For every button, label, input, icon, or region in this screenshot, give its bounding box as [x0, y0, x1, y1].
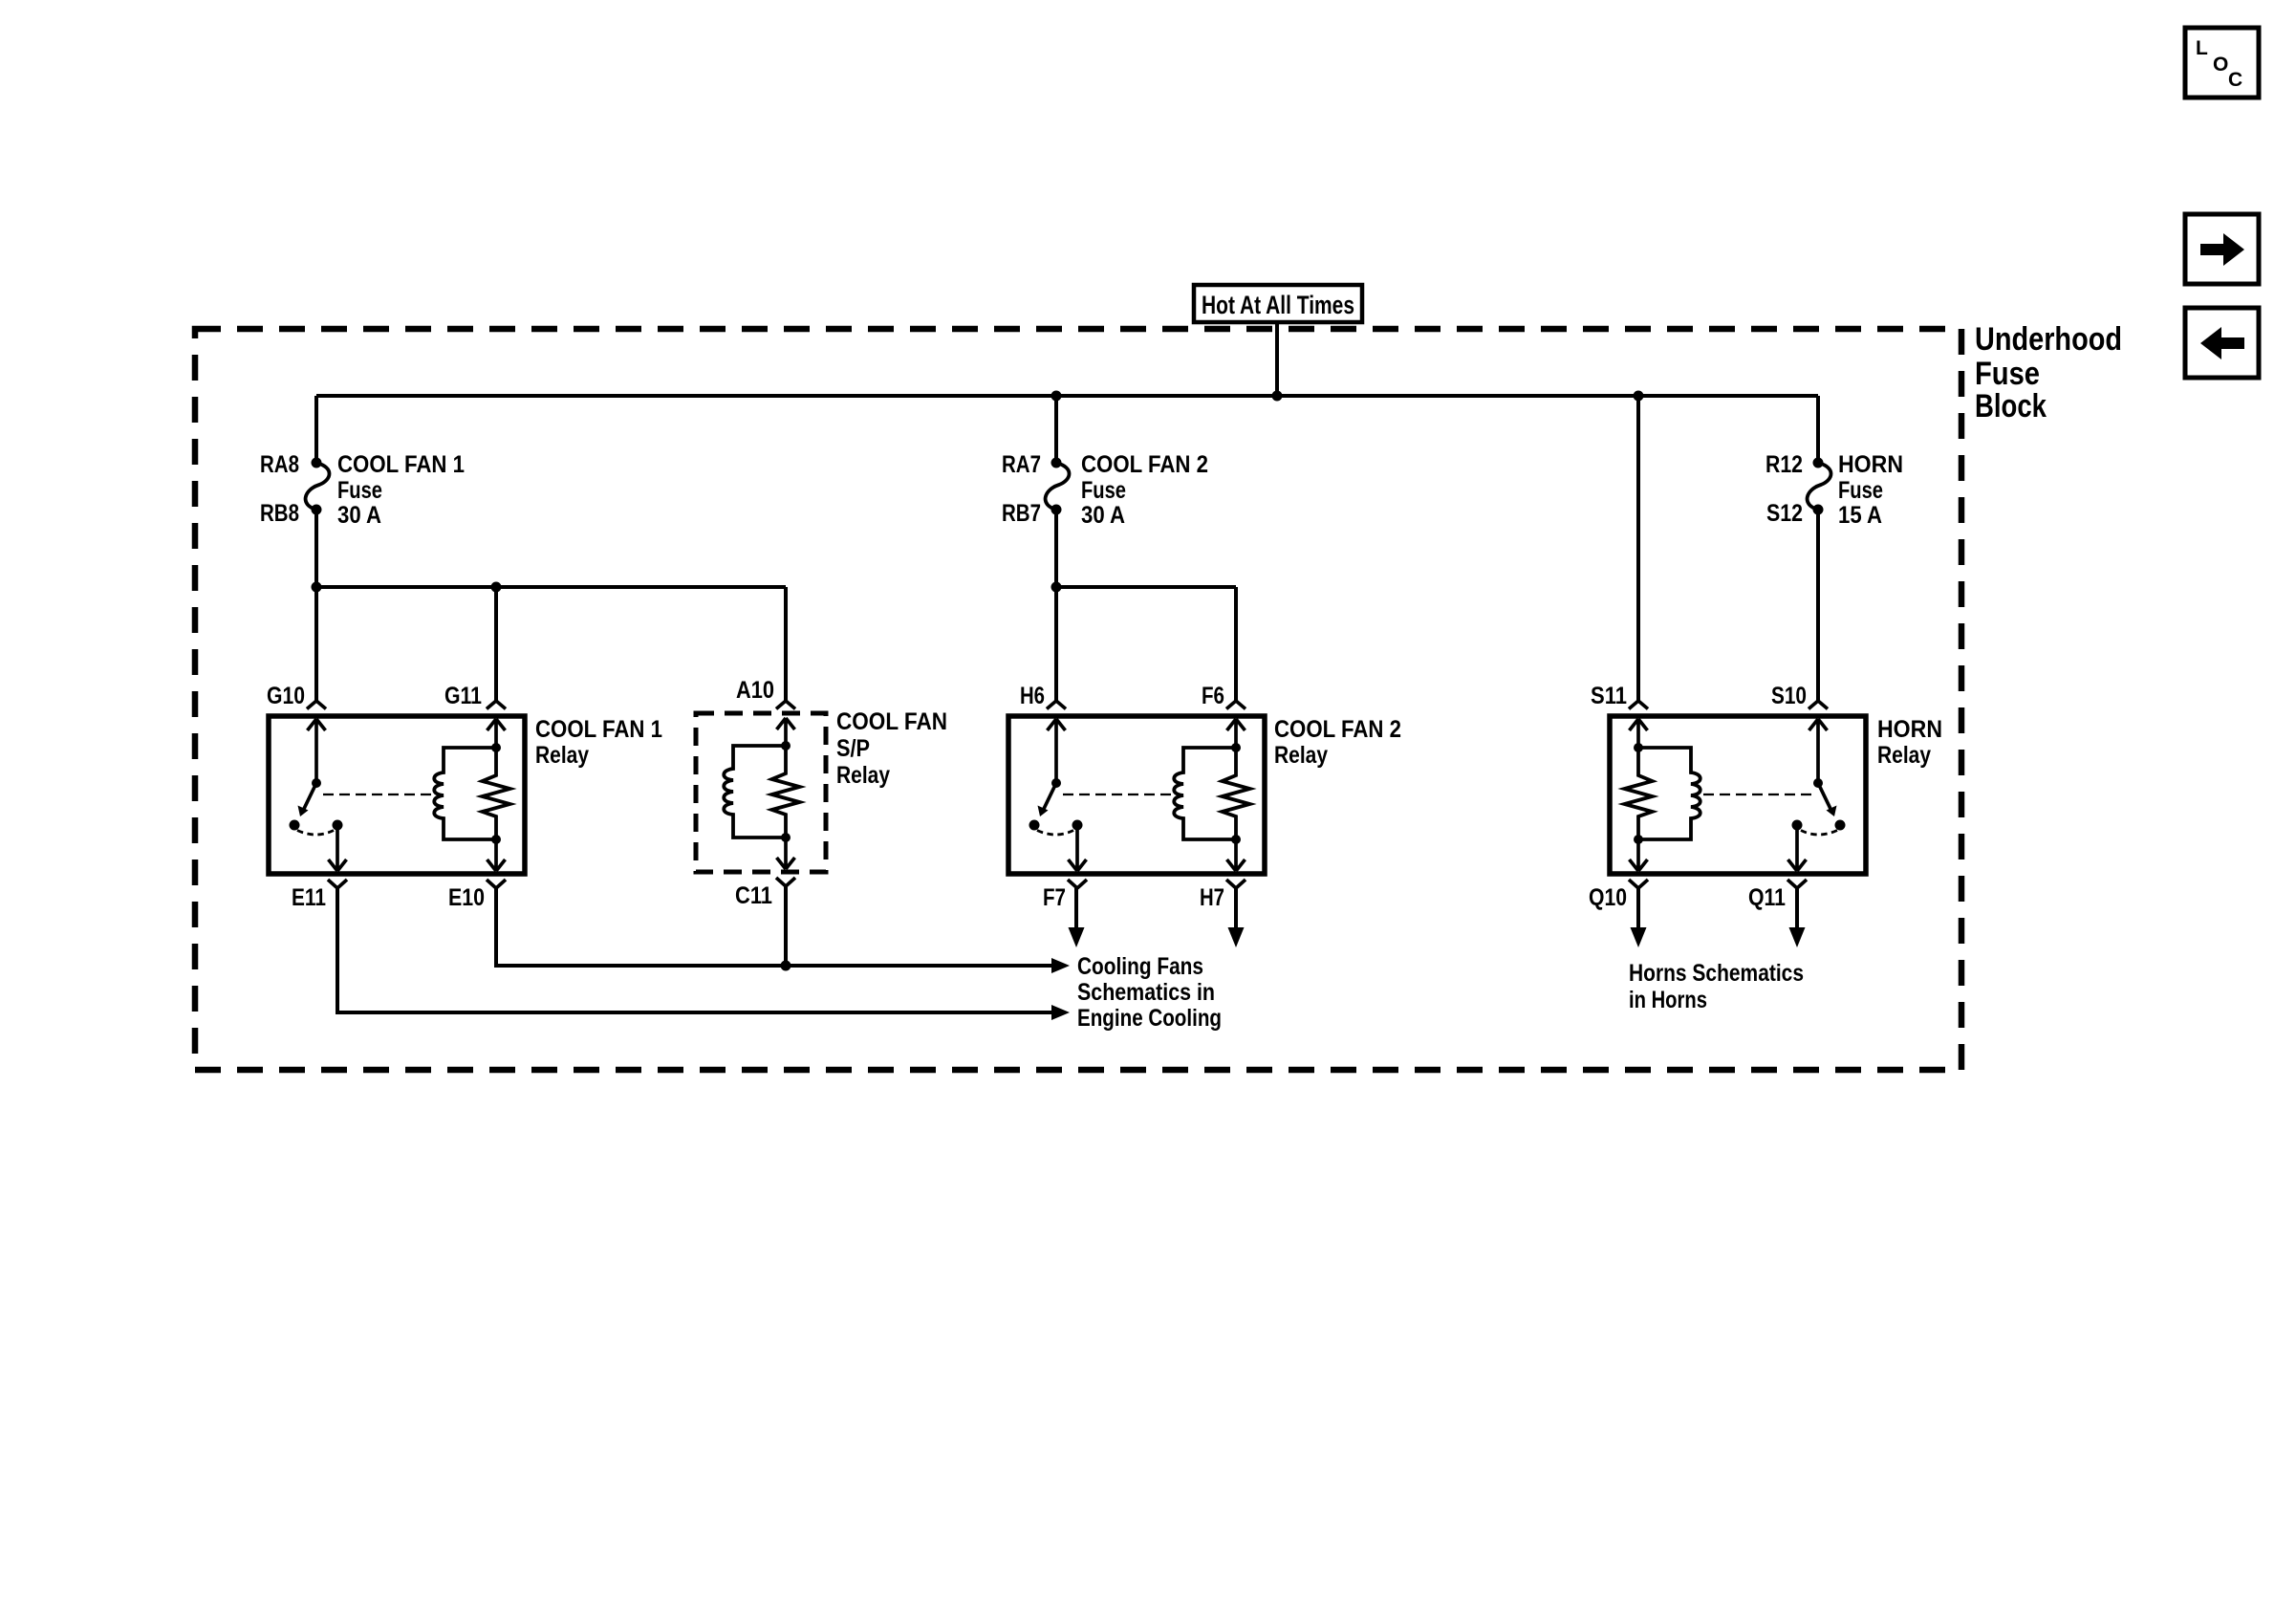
node: RA7 fuse terminal dot [1051, 458, 1062, 468]
wire: fuse RB7 down to sub-bus [1054, 510, 1058, 587]
arrow: Q10 continuation [1631, 927, 1647, 947]
svg-text:E10: E10 [448, 884, 485, 911]
svg-text:Cooling Fans: Cooling Fans [1077, 953, 1203, 980]
Hot At All Times power feed box [1194, 285, 1362, 322]
node: S12 fuse terminal dot [1813, 505, 1824, 515]
node: sub-bus junction at G10 [312, 582, 322, 593]
svg-text:Engine Cooling: Engine Cooling [1077, 1005, 1222, 1032]
node: sub-bus junction at G11 [491, 582, 502, 593]
wire: drop to A10 [784, 587, 788, 701]
fuse COOL FAN 2 30A (element curve) [1046, 463, 1070, 510]
svg-text:Relay: Relay [1274, 742, 1328, 769]
svg-text:Schematics in: Schematics in [1077, 979, 1215, 1006]
svg-text:C11: C11 [735, 882, 772, 909]
wire: Q11 output stub [1795, 888, 1799, 931]
wire: drop to H6 [1054, 587, 1058, 701]
svg-text:Q11: Q11 [1748, 884, 1786, 911]
label COOL FAN 1 Fuse 30 A [337, 451, 465, 529]
node: bus junction at power feed [1272, 391, 1283, 402]
svg-text:30 A: 30 A [1081, 502, 1125, 529]
node: RB8 fuse terminal dot [312, 505, 322, 515]
svg-text:Underhood: Underhood [1975, 321, 2122, 358]
svg-text:RA8: RA8 [260, 451, 299, 478]
wire: bus drop to COOL FAN 2 fuse [1054, 396, 1058, 463]
svg-text:15 A: 15 A [1838, 502, 1882, 529]
svg-text:H7: H7 [1200, 884, 1224, 911]
relay U1 COOL FAN 1 Relay internals [269, 701, 525, 888]
wire: H7 output stub [1234, 888, 1238, 931]
S/P relay coil (4 bumps) [724, 746, 786, 838]
arrow: Q11 continuation [1789, 927, 1806, 947]
label COOL FAN S/P Relay [836, 708, 947, 789]
svg-text:Block: Block [1975, 388, 2047, 424]
wire: fuse RB8 down to sub-bus [314, 510, 318, 587]
S/P relay resistor (zigzag) [772, 746, 800, 838]
Underhood Fuse Block label [1975, 321, 2122, 424]
S/P relay output wire with down arrow [777, 838, 795, 869]
svg-text:COOL FAN: COOL FAN [836, 708, 947, 735]
S/P relay terminal chevron A10 [776, 701, 795, 709]
wire: Hot At All Times feed drop [1275, 322, 1279, 396]
Underhood Fuse Block dashed boundary [195, 329, 1961, 1070]
svg-text:Fuse: Fuse [1838, 477, 1883, 504]
svg-text:Q10: Q10 [1589, 884, 1627, 911]
svg-text:RB7: RB7 [1002, 500, 1041, 527]
S/P relay coil bottom junction dot [781, 833, 791, 842]
svg-text:E11: E11 [292, 884, 326, 911]
svg-text:S12: S12 [1766, 500, 1803, 527]
arrow: F7 continuation [1069, 927, 1085, 947]
wire: main power bus [316, 394, 1818, 398]
fuse COOL FAN 1 30A (element curve) [306, 463, 330, 510]
label COOL FAN 1 Relay [535, 716, 662, 769]
svg-text:S10: S10 [1771, 683, 1807, 709]
wire: bus corner drop to HORN fuse [1816, 396, 1820, 463]
svg-text:L: L [2196, 37, 2208, 59]
wire: Q10 output stub [1636, 888, 1640, 931]
svg-text:COOL FAN 2: COOL FAN 2 [1081, 451, 1208, 478]
relay U3 COOL FAN 2 Relay internals [1008, 701, 1265, 888]
wire: fuse S12 down to S10 [1816, 510, 1820, 701]
backward page-reference icon (left arrow box) [2185, 308, 2259, 378]
svg-text:O: O [2213, 54, 2228, 76]
node: RA8 fuse terminal dot [312, 458, 322, 468]
wire: drop to F6 [1234, 587, 1238, 701]
svg-text:30 A: 30 A [337, 502, 381, 529]
label HORN Fuse 15 A [1838, 451, 1903, 529]
arrow: to Engine Cooling (lower) [1051, 1005, 1070, 1020]
S/P relay coil top junction dot [781, 741, 791, 751]
wire: F7 output stub [1074, 888, 1078, 931]
wire: E10 output down and right [496, 888, 1052, 966]
svg-text:H6: H6 [1020, 683, 1045, 709]
node: RB7 fuse terminal dot [1051, 505, 1062, 515]
wire: drop to G10 [314, 587, 318, 701]
relay U4 HORN Relay internals (mirrored) [1610, 701, 1866, 888]
svg-text:in Horns: in Horns [1629, 987, 1707, 1013]
svg-text:A10: A10 [736, 677, 774, 704]
wire: drop to G11 [494, 587, 498, 701]
node: sub-bus junction at H6 [1051, 582, 1062, 593]
label COOL FAN 2 Fuse 30 A [1081, 451, 1208, 529]
svg-text:F7: F7 [1043, 884, 1066, 911]
svg-text:S11: S11 [1591, 683, 1627, 709]
relay U2 COOL FAN S/P Relay dashed box [696, 713, 826, 872]
wire: bus drop to S11 [1636, 396, 1640, 701]
svg-text:Hot At All Times: Hot At All Times [1202, 291, 1354, 319]
svg-text:Relay: Relay [1877, 742, 1931, 769]
node: R12 fuse terminal dot [1813, 458, 1824, 468]
wire: C11 drop joining E10 run [784, 886, 788, 966]
svg-text:Horns Schematics: Horns Schematics [1629, 960, 1804, 987]
arrow: H7 continuation [1228, 927, 1245, 947]
wire: E11 output down and right [337, 888, 1052, 1012]
wire: COOL FAN 1 sub-bus [316, 585, 786, 589]
svg-text:S/P: S/P [836, 735, 870, 762]
fuse HORN 15A (element curve) [1808, 463, 1831, 510]
svg-text:Relay: Relay [535, 742, 589, 769]
S/P relay output chevron C11 [776, 878, 795, 886]
arrow: to Cooling Fans Schematics (upper) [1051, 958, 1070, 973]
svg-text:Fuse: Fuse [337, 477, 382, 504]
svg-text:HORN: HORN [1838, 451, 1903, 478]
S/P relay terminal arrow (inside, up) [777, 718, 795, 746]
svg-text:Relay: Relay [836, 762, 890, 789]
label Cooling Fans Schematics in Engine Cooling [1077, 953, 1222, 1032]
svg-text:G10: G10 [267, 683, 305, 709]
svg-text:G11: G11 [444, 683, 482, 709]
wire: COOL FAN 2 sub-bus [1056, 585, 1236, 589]
label COOL FAN 2 Relay [1274, 716, 1401, 769]
svg-text:C: C [2228, 69, 2242, 91]
svg-text:COOL FAN 1: COOL FAN 1 [337, 451, 465, 478]
svg-text:COOL FAN 2: COOL FAN 2 [1274, 716, 1401, 743]
svg-text:Fuse: Fuse [1081, 477, 1126, 504]
node: bus junction at COOL FAN 2 fuse [1051, 391, 1062, 402]
LOC legend icon box [2185, 28, 2259, 98]
svg-text:Fuse: Fuse [1975, 356, 2040, 392]
svg-text:F6: F6 [1202, 683, 1224, 709]
label HORN Relay [1877, 716, 1942, 769]
node: bus junction at S11 drop [1634, 391, 1644, 402]
svg-text:COOL FAN 1: COOL FAN 1 [535, 716, 662, 743]
forward page-reference icon (right arrow box) [2185, 214, 2259, 284]
node: junction C11 into E10 run [781, 961, 791, 971]
svg-text:RB8: RB8 [260, 500, 299, 527]
svg-text:R12: R12 [1765, 451, 1803, 478]
label Horns Schematics in Horns [1629, 960, 1804, 1013]
wire: bus drop to COOL FAN 1 fuse [314, 396, 318, 463]
svg-text:HORN: HORN [1877, 716, 1942, 743]
svg-text:RA7: RA7 [1002, 451, 1041, 478]
